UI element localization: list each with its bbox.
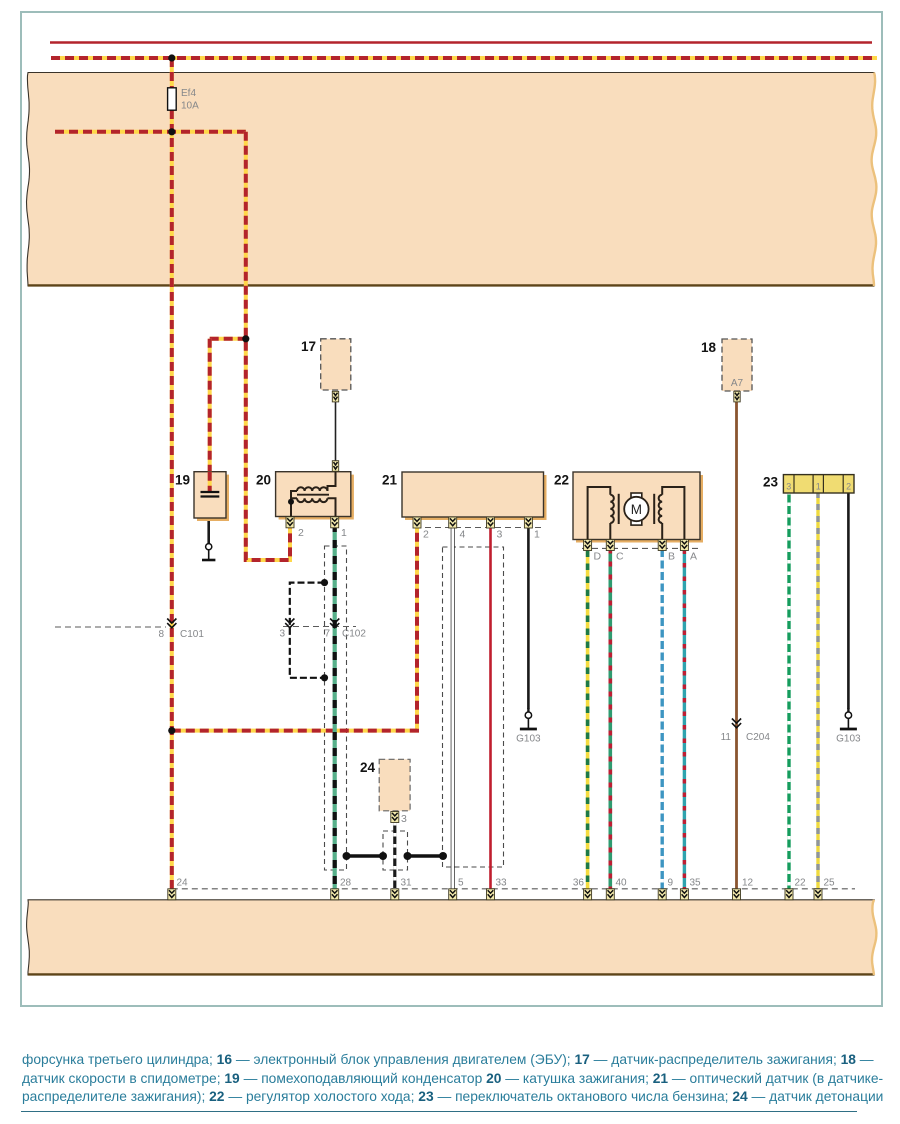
svg-text:2: 2: [846, 482, 851, 492]
svg-text:C102: C102: [342, 629, 366, 640]
svg-text:24: 24: [177, 878, 189, 889]
svg-text:36: 36: [573, 878, 585, 889]
svg-text:M: M: [631, 502, 642, 517]
svg-text:22: 22: [554, 473, 569, 488]
svg-text:10A: 10A: [181, 101, 199, 112]
svg-text:A7: A7: [731, 378, 744, 389]
svg-text:35: 35: [690, 878, 702, 889]
svg-text:12: 12: [742, 878, 754, 889]
svg-text:3: 3: [279, 629, 285, 640]
svg-text:19: 19: [175, 473, 190, 488]
svg-text:3: 3: [497, 529, 503, 541]
svg-text:B: B: [668, 551, 675, 563]
svg-text:23: 23: [763, 475, 779, 490]
svg-text:28: 28: [340, 878, 352, 889]
svg-text:31: 31: [401, 878, 413, 889]
svg-text:C101: C101: [180, 629, 204, 640]
svg-text:4: 4: [460, 529, 466, 541]
svg-text:3: 3: [401, 813, 407, 825]
svg-text:9: 9: [668, 878, 674, 889]
svg-text:33: 33: [496, 878, 508, 889]
svg-text:1: 1: [816, 482, 821, 492]
svg-text:18: 18: [701, 340, 717, 355]
svg-text:11: 11: [721, 732, 732, 743]
svg-text:3: 3: [786, 482, 791, 492]
svg-text:24: 24: [360, 760, 376, 775]
svg-text:7: 7: [324, 629, 330, 640]
svg-text:8: 8: [158, 629, 164, 640]
svg-text:25: 25: [824, 878, 836, 889]
svg-text:C204: C204: [746, 732, 770, 743]
svg-text:Ef4: Ef4: [181, 88, 196, 99]
svg-text:1: 1: [534, 529, 540, 541]
svg-text:G103: G103: [836, 734, 861, 745]
svg-text:2: 2: [423, 529, 429, 541]
svg-text:21: 21: [382, 473, 398, 488]
svg-text:40: 40: [616, 878, 628, 889]
svg-text:1: 1: [341, 527, 347, 539]
svg-text:2: 2: [298, 527, 304, 539]
svg-text:C: C: [616, 551, 624, 563]
svg-text:17: 17: [301, 339, 316, 354]
svg-text:D: D: [594, 551, 602, 563]
svg-text:22: 22: [795, 878, 807, 889]
svg-text:G103: G103: [516, 734, 541, 745]
svg-text:20: 20: [256, 473, 271, 488]
svg-text:A: A: [690, 551, 697, 563]
svg-text:5: 5: [458, 878, 464, 889]
